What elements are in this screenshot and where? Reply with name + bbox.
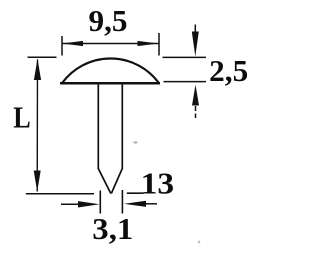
svg-text:13: 13	[141, 166, 175, 201]
dimension 9,5 line	[62, 43, 159, 45]
dimension 9,5 left extension line	[61, 36, 63, 56]
dimension L down arrowhead	[34, 171, 41, 192]
dimension 2,5 upper arrowhead	[192, 32, 199, 57]
dimension 2,5 lower arrow line	[195, 106, 197, 118]
svg-text:3,1: 3,1	[92, 211, 133, 246]
dimension 3,1 left arrowhead	[78, 201, 100, 207]
nail head base line	[60, 82, 160, 85]
dimension 2,5 upper extension line	[163, 56, 207, 58]
dimension 9,5 left arrowhead	[62, 41, 83, 46]
nail head dome outline	[63, 58, 159, 82]
dimension L bottom extension line	[26, 193, 94, 195]
dimension 3,1 right extension line	[121, 190, 123, 214]
dimension 3,1 right arrow line	[145, 203, 157, 205]
dimension 9,5 right extension line	[158, 33, 160, 56]
dimension 9,5 right arrowhead	[138, 41, 159, 46]
dimension 2,5 lower arrowhead	[192, 85, 199, 106]
dimension L line	[36, 60, 38, 192]
nail shank left edge	[98, 84, 111, 193]
label 13 leader line	[127, 192, 144, 194]
dimension 3,1 right arrowhead	[124, 201, 146, 207]
dimension L up arrowhead	[34, 59, 41, 80]
dimension 2,5 upper arrow line	[194, 25, 196, 34]
dimension 2,5 lower extension line	[164, 81, 207, 83]
scan speck lower	[198, 241, 201, 244]
scan speck upper	[133, 141, 137, 143]
nail shank right edge	[111, 84, 122, 193]
svg-text:2,5: 2,5	[209, 53, 248, 88]
dimension 3,1 left arrow line	[61, 203, 80, 205]
svg-text:9,5: 9,5	[89, 3, 128, 38]
dimension 3,1 left extension line	[99, 191, 101, 214]
dimension L top extension line	[28, 56, 57, 58]
svg-text:L: L	[13, 99, 31, 134]
